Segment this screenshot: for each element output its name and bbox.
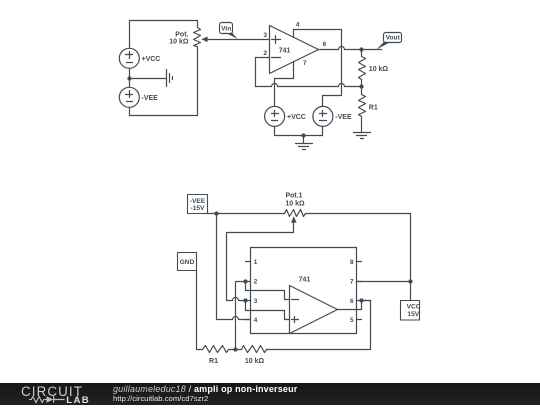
- svg-text:3: 3: [263, 32, 267, 39]
- svg-text:3: 3: [254, 298, 258, 305]
- svg-text:4: 4: [296, 21, 300, 28]
- svg-text:2: 2: [254, 279, 258, 286]
- svg-text:VCC: VCC: [407, 304, 421, 311]
- svg-text:10 kΩ: 10 kΩ: [169, 38, 189, 45]
- svg-text:+VCC: +VCC: [142, 56, 161, 63]
- svg-text:R1: R1: [369, 105, 378, 112]
- svg-text:6: 6: [323, 41, 327, 48]
- svg-text:5: 5: [350, 317, 354, 324]
- svg-text:-VEE: -VEE: [190, 198, 206, 205]
- svg-text:R1: R1: [209, 358, 218, 365]
- svg-text:7: 7: [303, 60, 307, 67]
- svg-text:741: 741: [279, 48, 291, 55]
- svg-text:Pot.1: Pot.1: [285, 193, 302, 200]
- svg-text:7: 7: [350, 279, 354, 286]
- svg-text:10 kΩ: 10 kΩ: [369, 66, 389, 73]
- svg-text:6: 6: [350, 298, 354, 305]
- svg-text:10 kΩ: 10 kΩ: [245, 358, 265, 365]
- svg-text:LAB: LAB: [66, 395, 90, 405]
- svg-text:4: 4: [254, 317, 258, 324]
- svg-text:741: 741: [299, 276, 311, 283]
- svg-text:GND: GND: [180, 259, 195, 266]
- svg-text:-VEE: -VEE: [335, 114, 352, 121]
- svg-text:10 kΩ: 10 kΩ: [285, 200, 305, 207]
- svg-text:+VCC: +VCC: [287, 114, 306, 121]
- svg-text:-VEE: -VEE: [142, 95, 159, 102]
- svg-text:-15V: -15V: [191, 205, 206, 212]
- svg-text:15V: 15V: [407, 311, 419, 318]
- svg-text:2: 2: [263, 50, 267, 57]
- svg-text:Vin: Vin: [221, 26, 231, 33]
- svg-text:8: 8: [350, 259, 354, 266]
- svg-text:1: 1: [254, 259, 258, 266]
- svg-text:Vout: Vout: [386, 35, 401, 42]
